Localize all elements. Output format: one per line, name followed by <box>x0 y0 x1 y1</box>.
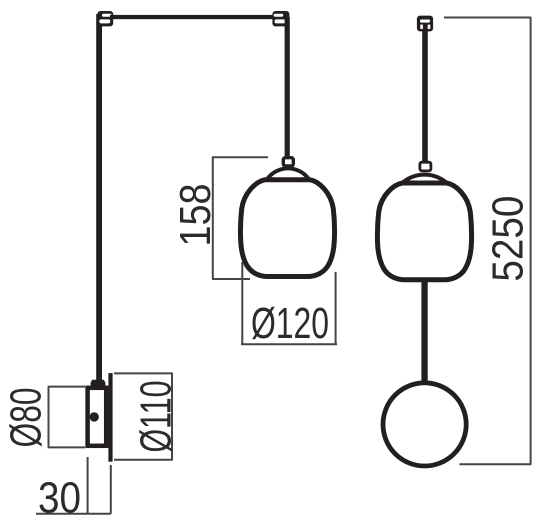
dome left lamp <box>268 168 309 178</box>
dim 5250 bracket <box>444 18 531 465</box>
rod flare above wall bracket <box>91 380 106 386</box>
top-left joint block <box>97 11 113 26</box>
svg-text:Ø80: Ø80 <box>2 388 51 448</box>
horizontal arm <box>110 15 276 19</box>
ceiling joint block right lamp <box>417 16 433 32</box>
socket right lamp <box>420 162 431 171</box>
svg-text:Ø110: Ø110 <box>132 381 181 453</box>
wall rod vertical <box>96 14 102 383</box>
svg-text:5250: 5250 <box>484 196 533 282</box>
socket left lamp <box>283 158 293 166</box>
stem rod below right shade <box>421 282 427 382</box>
cord down to left lamp <box>285 17 290 157</box>
dim O80 bracket <box>48 387 85 448</box>
dome right lamp <box>403 175 445 182</box>
svg-text:158: 158 <box>171 184 220 247</box>
glass sphere right lamp <box>383 383 466 466</box>
dim 30 extension lines <box>36 457 111 514</box>
shade body right lamp <box>377 183 471 280</box>
wall bracket box <box>88 388 107 446</box>
svg-text:Ø120: Ø120 <box>251 299 329 348</box>
top-right joint block <box>272 11 289 26</box>
dim 158 bracket <box>212 157 268 279</box>
screw dot <box>90 412 99 421</box>
cord right lamp <box>422 31 428 163</box>
svg-text:30: 30 <box>38 474 81 523</box>
dim O120 extension lines <box>241 262 337 344</box>
wall plate line <box>108 373 112 462</box>
dim O110 bracket <box>114 373 173 459</box>
shade body left lamp <box>240 180 334 277</box>
